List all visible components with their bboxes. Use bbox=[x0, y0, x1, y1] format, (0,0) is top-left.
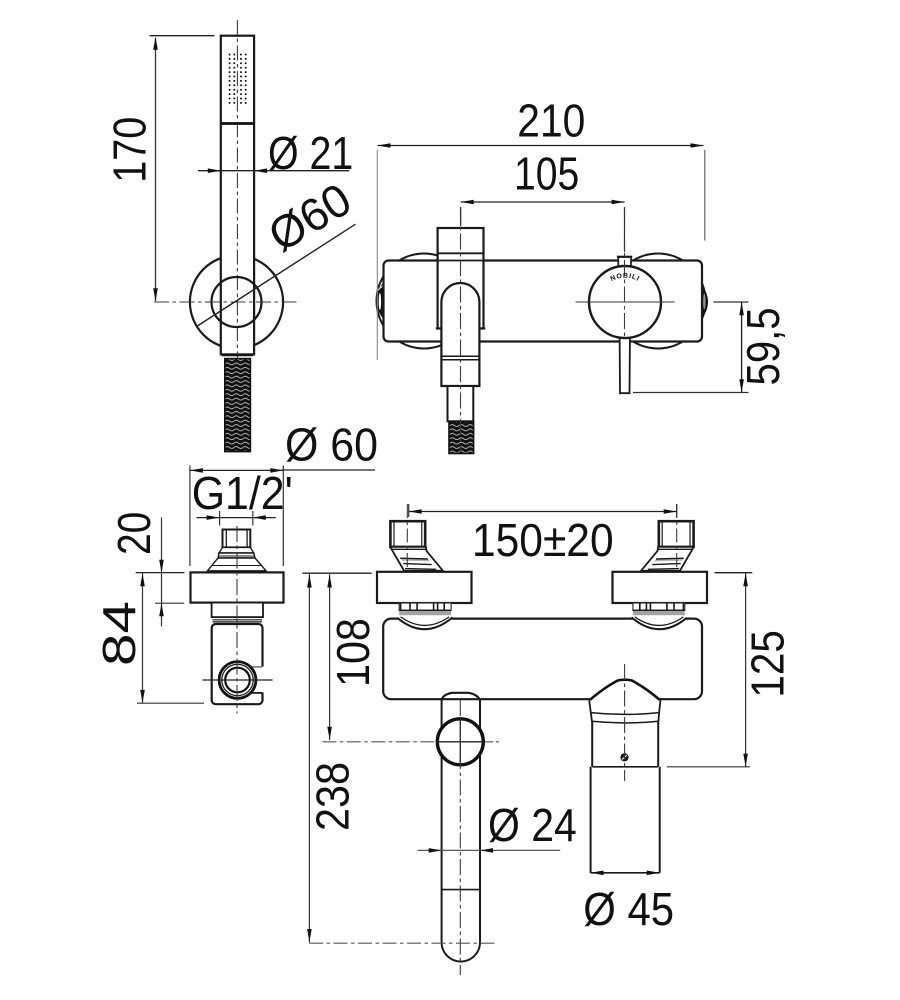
dimension 20 extension lines bbox=[136, 572, 185, 574]
svg-text:170: 170 bbox=[103, 117, 155, 183]
handle knob circle bbox=[589, 266, 661, 338]
holder outer circle bbox=[190, 255, 283, 348]
body top line across column bbox=[438, 260, 484, 262]
dimension diameter 21 arrows bbox=[208, 168, 221, 173]
svg-text:108: 108 bbox=[327, 618, 379, 687]
dimension 210 arrows bbox=[378, 143, 391, 148]
dimension 125 arrows bbox=[743, 573, 748, 586]
handle ring band bbox=[589, 701, 660, 714]
shared extension line for 108/238 bbox=[302, 572, 371, 574]
wand centerline bbox=[236, 20, 238, 358]
dimension 170 line bbox=[155, 38, 157, 301]
handle joint line bbox=[592, 766, 658, 768]
svg-text:Ø 24: Ø 24 bbox=[488, 799, 577, 851]
svg-text:150±20: 150±20 bbox=[472, 514, 614, 566]
handle lower cylinder (diameter 45) bbox=[590, 767, 592, 873]
dimension G1/2 arrows bbox=[190, 468, 203, 473]
bracket vertical centerline bbox=[236, 526, 238, 714]
left escutcheon flange circle bbox=[377, 254, 472, 349]
right wall connector crescent (hatched) bbox=[701, 284, 708, 321]
svg-text:84: 84 bbox=[93, 601, 145, 666]
shower holder column bbox=[438, 228, 484, 329]
column collar line bbox=[438, 252, 484, 254]
dimension 59,5 arrows bbox=[739, 302, 744, 315]
handle cap stub bbox=[618, 257, 631, 267]
spout rounded bottom bbox=[442, 942, 480, 961]
eccentric S-bend bbox=[390, 547, 443, 571]
handle upper cylinder bbox=[591, 722, 593, 767]
hand shower hose (hatched) bbox=[225, 359, 251, 452]
spout pipe dome top bbox=[442, 693, 480, 700]
svg-text:238: 238 bbox=[307, 762, 359, 831]
svg-text:210: 210 bbox=[517, 94, 585, 146]
bottom crosshair centerline bbox=[309, 942, 497, 944]
handle lever (below knob) bbox=[620, 330, 630, 393]
thread width ticks bbox=[219, 511, 221, 526]
mixer hose (hatched) bbox=[449, 422, 474, 454]
dimension 150+-20 ticks bbox=[408, 504, 410, 517]
knob logo curved text bbox=[603, 278, 647, 289]
collar below plate bbox=[212, 603, 263, 618]
spray nozzle dots bbox=[229, 54, 247, 104]
spout joint line bbox=[442, 889, 480, 891]
dimension diameter 21 line bbox=[198, 170, 349, 172]
svg-text:105: 105 bbox=[514, 148, 579, 200]
thread width arrows (outside) bbox=[207, 515, 220, 520]
right escutcheon flange circle bbox=[611, 254, 706, 349]
bracket lower body bbox=[212, 624, 263, 704]
dimension G1/2 extension lines bbox=[189, 466, 191, 567]
dimension 59,5 extension lines bbox=[714, 301, 749, 303]
dimension 238 arrows bbox=[307, 575, 312, 588]
svg-text:G1/2': G1/2' bbox=[192, 467, 293, 519]
ring crosshair bbox=[203, 679, 273, 681]
left wall connector crescent (hatched) bbox=[377, 282, 384, 321]
dimension 84 arrows bbox=[140, 573, 145, 586]
right S-union (mirror of left) bbox=[613, 504, 708, 629]
dimension 125 line bbox=[745, 573, 747, 767]
escutcheon dome (covers body top line) bbox=[397, 615, 452, 629]
svg-text:125: 125 bbox=[742, 630, 794, 698]
dimension 20 arrows (outside) bbox=[159, 560, 164, 573]
thread width line bbox=[196, 517, 275, 519]
set screw bbox=[621, 754, 628, 761]
dimension 150+-20 arrows bbox=[409, 509, 422, 514]
mixer body (bottom view) bbox=[383, 619, 702, 700]
nipple flare bands bbox=[219, 547, 254, 553]
dimension 105 extension lines bbox=[460, 207, 462, 226]
wand double joint lines bbox=[441, 355, 479, 357]
dimension 84 extension line bottom bbox=[137, 702, 204, 704]
holder bottom rim ticks bbox=[436, 327, 442, 329]
dimension 170 arrows bbox=[153, 37, 158, 50]
dimension 125 extension lines bbox=[715, 572, 753, 574]
threaded nipple bbox=[390, 521, 425, 547]
collar under plate bbox=[399, 603, 451, 610]
hand shower wand hanging in holder bbox=[441, 283, 479, 386]
svg-text:Ø 21: Ø 21 bbox=[268, 127, 353, 179]
spout crosshair horizontal bbox=[436, 741, 485, 743]
dimension 84 line bbox=[142, 573, 144, 703]
holder inner ring (in front of wand) bbox=[212, 277, 262, 327]
dimension diameter 24 line bbox=[418, 849, 561, 851]
wall plate (diameter 60 disc, side) bbox=[191, 572, 284, 602]
spout vertical centerline bbox=[459, 700, 461, 975]
wand neck bbox=[448, 386, 474, 421]
handle centerline bbox=[624, 664, 626, 781]
spout pipe bbox=[441, 699, 443, 942]
hand shower wand body bbox=[221, 36, 254, 355]
mixer body bbox=[384, 261, 703, 342]
knob crosshair bbox=[576, 301, 675, 303]
G1/2 thread nipple top rect bbox=[223, 530, 251, 548]
hose outlet ring bbox=[219, 662, 256, 699]
handle knob dome (bottom view, covers body bottom line) bbox=[589, 680, 660, 702]
spout outlet ring (thick circle) bbox=[437, 719, 483, 765]
dimension 20 line bbox=[161, 517, 163, 626]
left S-union eccentric connector bbox=[377, 504, 472, 629]
union wall plate bbox=[377, 572, 472, 603]
dimension G1/2 line bbox=[190, 469, 283, 471]
outlet notch cut bbox=[249, 667, 265, 693]
dimension diameter 24 arrows (outside) bbox=[429, 848, 442, 853]
spray face separator line bbox=[221, 122, 254, 125]
svg-text:20: 20 bbox=[108, 512, 160, 555]
leader line for diameter 60 bbox=[197, 224, 355, 326]
holder horizontal centerline bbox=[154, 301, 299, 303]
column centerline bbox=[460, 207, 462, 452]
dimension 59,5 line bbox=[741, 302, 743, 393]
dimension 170 extension line top bbox=[150, 35, 215, 37]
svg-text:Ø 60: Ø 60 bbox=[285, 419, 378, 471]
leader underline for diameter 60 bbox=[282, 469, 375, 471]
dimension 105 line bbox=[461, 201, 625, 203]
svg-text:59,5: 59,5 bbox=[737, 307, 789, 385]
dimension diameter 45 arrows bbox=[591, 871, 604, 876]
wand bottom cap line bbox=[222, 354, 253, 356]
bracket flare to plate bbox=[208, 558, 267, 571]
svg-text:Ø 45: Ø 45 bbox=[583, 883, 674, 935]
dimension 108 line bbox=[329, 574, 331, 740]
dimension 150+-20 line bbox=[409, 511, 677, 513]
dimension 108 arrows bbox=[327, 575, 332, 588]
dimension 105 arrows bbox=[461, 200, 474, 205]
dimension 210 line bbox=[378, 145, 704, 147]
dimension 210 extension lines bbox=[376, 150, 378, 360]
dimension 238 line bbox=[308, 574, 310, 942]
union centerline bbox=[406, 504, 408, 570]
